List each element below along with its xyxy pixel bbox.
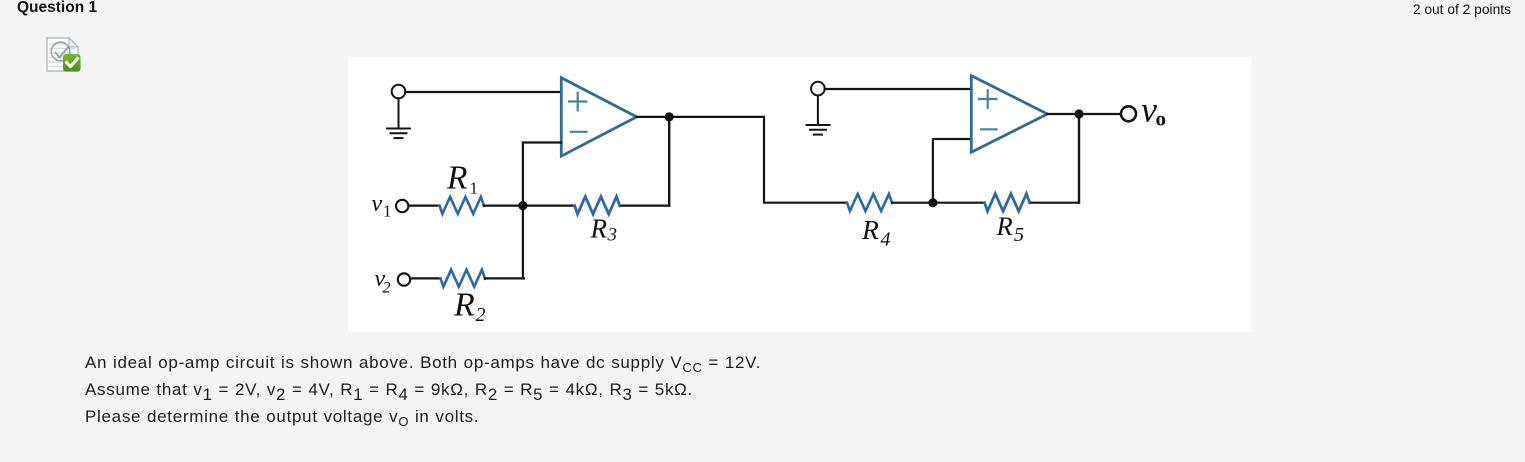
wire: R2 to vertical riser xyxy=(485,277,524,279)
resistor R5 xyxy=(985,194,1030,212)
header: Question 1 xyxy=(17,0,97,17)
op-amp U2 xyxy=(971,76,1047,153)
wire: R5 to output riser xyxy=(1032,202,1079,204)
wire: riser up to node D xyxy=(1078,114,1080,203)
terminal v1 xyxy=(396,200,408,212)
wire: R3 to output riser xyxy=(622,205,670,207)
wire: G1 to op-amp U1 + input xyxy=(405,91,561,93)
svg-text:R: R xyxy=(996,211,1013,241)
wire: G2 to op-amp U2 + input xyxy=(825,88,971,90)
ground G2 (stage 2, + input) xyxy=(807,82,830,135)
wire: vertical summing node line xyxy=(522,143,524,279)
svg-text:1: 1 xyxy=(383,202,392,221)
svg-text:v: v xyxy=(372,191,383,217)
svg-text:3: 3 xyxy=(607,225,618,246)
wire: node D to vo terminal xyxy=(1079,113,1121,115)
resistor R4 xyxy=(847,194,892,211)
U2 minus marker xyxy=(981,128,997,130)
svg-text:o: o xyxy=(1156,107,1167,131)
svg-text:R: R xyxy=(861,214,879,245)
wire: U2 output to node D xyxy=(1047,113,1079,115)
svg-text:2: 2 xyxy=(383,280,391,297)
wire: node B to stage 2 (right, down, right) xyxy=(669,117,847,203)
U2 plus marker xyxy=(979,90,997,108)
wire: R1 to node A xyxy=(484,205,523,207)
svg-text:R: R xyxy=(453,287,475,324)
wire: v2 to R2 xyxy=(410,277,440,279)
node A junction dot xyxy=(518,201,527,210)
ground G1 (stage 1, + input) xyxy=(387,85,410,138)
terminal v2 xyxy=(398,273,410,285)
white circuit panel xyxy=(348,57,1251,332)
U1 plus marker xyxy=(569,93,587,111)
op-amp U1 xyxy=(561,78,636,156)
resistor R1 xyxy=(440,197,485,214)
svg-text:2: 2 xyxy=(476,304,486,326)
wire: node C to R5 xyxy=(933,202,985,204)
wire: node A to R3 xyxy=(523,205,575,207)
svg-text:5: 5 xyxy=(1014,224,1024,246)
terminal vo xyxy=(1121,106,1136,121)
svg-text:R: R xyxy=(446,160,467,197)
points label xyxy=(1413,2,1511,17)
question text xyxy=(85,350,761,430)
svg-text:4: 4 xyxy=(881,229,891,251)
node B junction dot xyxy=(665,112,674,121)
svg-text:1: 1 xyxy=(470,178,479,197)
question icon (document with check) xyxy=(45,36,81,73)
wire: U1 output to node B xyxy=(637,116,670,118)
U1 minus marker xyxy=(571,131,587,133)
wire: riser up to output node xyxy=(668,117,670,206)
wire: U1 - input feedback left segment xyxy=(523,141,561,143)
svg-text:R: R xyxy=(590,214,608,244)
node D junction dot xyxy=(1074,109,1083,118)
wire: v1 to R1 xyxy=(409,205,440,207)
wire: R4 to node C xyxy=(892,202,933,204)
wire: node C feedback riser and to U2 - input xyxy=(933,139,971,203)
resistor R2 xyxy=(441,270,486,287)
node C junction dot xyxy=(928,198,937,207)
resistor R3 xyxy=(575,197,620,215)
